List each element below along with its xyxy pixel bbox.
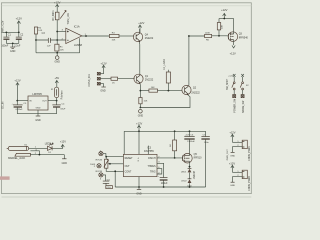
junction output xyxy=(85,35,87,37)
capacitor C2 xyxy=(14,32,24,47)
junction op-amp -in xyxy=(56,39,58,41)
svg-text:IC1A: IC1A xyxy=(74,25,80,29)
capacitor C8 xyxy=(157,163,168,187)
wire conn pin3 to gnd xyxy=(100,84,103,87)
transistor Q4 xyxy=(133,29,154,44)
svg-text:3: 3 xyxy=(100,178,102,180)
junction R2/C3 xyxy=(35,39,37,41)
junction Q1 emitter xyxy=(140,90,142,92)
switch S1 supply arrow xyxy=(228,74,235,82)
svg-text:IN: IN xyxy=(29,101,32,103)
wire conn pin2 to R1b xyxy=(100,78,111,80)
pot pad 3 xyxy=(99,173,103,181)
pot pad 2 xyxy=(94,164,101,168)
wire op-amp +in xyxy=(57,31,66,33)
wire R2 down xyxy=(35,34,37,53)
svg-text:1K: 1K xyxy=(170,144,172,147)
junction Q5 source xyxy=(189,166,191,168)
supply +12V (conn B) xyxy=(229,162,235,173)
svg-text:+5V: +5V xyxy=(54,76,59,80)
svg-text:LM358: LM358 xyxy=(74,43,82,47)
wire gnd bus regulator xyxy=(17,110,56,114)
wire Q2 emitter to gnd node xyxy=(140,95,190,108)
mosfet Q3 xyxy=(228,19,248,46)
svg-text:DISCH: DISCH xyxy=(148,157,156,160)
timer IC2 box xyxy=(123,147,160,177)
trimmer R3 xyxy=(55,11,66,20)
junction reg in xyxy=(16,100,18,102)
supply +12V (Q3 source, down) xyxy=(230,45,236,55)
svg-text:ICM7555: ICM7555 xyxy=(144,150,154,153)
capacitor C1 xyxy=(1,32,11,47)
wire conn A pin2 xyxy=(233,147,243,153)
wire rail left drop to IC2 xyxy=(123,131,125,154)
supply +12V (LED) xyxy=(60,139,66,148)
wire +12V rail (555) xyxy=(124,130,205,132)
switch S2 supply arrow xyxy=(241,74,249,87)
wire R6 to gate xyxy=(212,35,229,37)
resistor R1 (feedback) xyxy=(55,44,64,51)
svg-text:10K: 10K xyxy=(60,49,64,51)
junction C1 top xyxy=(6,32,8,34)
wire gate net Q3 xyxy=(189,35,205,37)
junction bus/diodes xyxy=(189,186,191,188)
resistor R10 (gate) xyxy=(170,131,177,158)
wire conn B pin1 xyxy=(232,171,242,173)
svg-text:0.33uF: 0.33uF xyxy=(16,109,23,111)
svg-text:1uF: 1uF xyxy=(47,45,51,47)
ground (conn B) xyxy=(230,182,235,187)
svg-text:10K: 10K xyxy=(151,87,155,89)
svg-text:BARREL_JACK: BARREL_JACK xyxy=(8,157,25,160)
junction rail/C6 xyxy=(189,130,191,132)
supply +12V (Q3) xyxy=(221,8,228,19)
junction bus/C8 xyxy=(163,186,165,188)
svg-text:100K: 100K xyxy=(205,32,211,34)
wire IC2 top pin stub xyxy=(147,146,149,155)
svg-text:IRF9540: IRF9540 xyxy=(239,36,249,39)
ground (transistor stage) xyxy=(138,109,144,117)
svg-text:R6: R6 xyxy=(206,39,210,41)
svg-text:+12V: +12V xyxy=(136,121,142,125)
svg-text:+12V: +12V xyxy=(60,139,66,143)
wire Q1 emitter xyxy=(139,84,141,91)
svg-text:IRF510: IRF510 xyxy=(194,157,203,160)
svg-text:OUT: OUT xyxy=(42,101,47,103)
svg-text:Polyfuse: Polyfuse xyxy=(62,90,64,100)
supply +12V (conn 3x1) xyxy=(101,61,107,73)
ground (input caps) xyxy=(10,43,16,53)
svg-text:C4: C4 xyxy=(62,104,66,106)
pot pad 1 xyxy=(99,151,103,156)
wire R1 bottom / feedback run xyxy=(36,51,80,52)
frame inner faint line bottom xyxy=(2,196,252,198)
svg-text:100uF: 100uF xyxy=(161,182,168,185)
resistor R7 xyxy=(149,87,158,92)
wire conn pin1 to +12V xyxy=(100,73,103,75)
svg-text:LED1: LED1 xyxy=(181,172,187,174)
svg-text:GND: GND xyxy=(138,115,144,118)
switch S1 xyxy=(232,82,236,98)
wire R7 to Q2 base xyxy=(158,90,183,92)
wire Q4 emitter to Q1 collector xyxy=(139,44,141,74)
wire conn B pin2 xyxy=(233,177,243,182)
svg-text:C2: C2 xyxy=(20,33,24,36)
connector CONN_3X1 pads xyxy=(97,72,100,85)
wire Q2 collector riser xyxy=(188,36,190,86)
voltage regulator IC4 LM7805 xyxy=(28,92,48,110)
supply +5V (regulator out) xyxy=(54,76,59,87)
ground (regulator) xyxy=(35,114,41,122)
junction caps gnd xyxy=(12,43,14,45)
junction reg out xyxy=(56,100,58,102)
resistor R2 (bias) xyxy=(34,27,42,34)
resistor R8 (Q1 emitter to gnd) xyxy=(139,91,148,108)
svg-text:LM7805: LM7805 xyxy=(32,92,42,96)
wire jack pin2 (sleeve) xyxy=(30,154,64,156)
junction bus/IC2 xyxy=(138,186,140,188)
svg-text:PWR_+12V: PWR_+12V xyxy=(2,20,5,33)
svg-text:GND: GND xyxy=(35,119,41,122)
svg-text:OUT: OUT xyxy=(125,165,131,168)
LED D1 xyxy=(45,143,54,154)
diode D2 xyxy=(181,167,191,179)
connector JP2 xyxy=(242,170,247,178)
svg-text:SW_SPDT: SW_SPDT xyxy=(227,78,229,90)
supply +12V (regulator in) xyxy=(14,79,20,101)
capacitor C3 xyxy=(36,32,66,47)
wire pot bottom to IC2/bus xyxy=(106,168,123,187)
svg-text:GND: GND xyxy=(230,155,235,157)
wire jack pin1 xyxy=(29,147,48,149)
wire R1b to Q1 base xyxy=(118,78,135,80)
wire to R7 xyxy=(140,90,149,92)
wire thres/trig loop xyxy=(157,169,162,174)
svg-text:Q3: Q3 xyxy=(239,33,243,36)
svg-text:1N4148: 1N4148 xyxy=(194,170,196,179)
svg-text:+12V: +12V xyxy=(229,162,235,166)
svg-text:+12V: +12V xyxy=(14,79,20,83)
svg-text:Q2: Q2 xyxy=(193,86,197,89)
supply +12V (conn A) xyxy=(229,130,235,142)
svg-text:+12V C6: +12V C6 xyxy=(185,134,194,136)
svg-text:GND: GND xyxy=(230,185,235,187)
svg-text:4: 4 xyxy=(138,158,140,160)
junction pot wiper xyxy=(109,163,111,165)
svg-text:POWER_SW: POWER_SW xyxy=(234,98,236,112)
junction gate corner xyxy=(188,35,190,37)
svg-text:TRIM_10K: TRIM_10K xyxy=(67,13,70,25)
resistor R9 (gate pullup) xyxy=(217,19,223,36)
junction pot top xyxy=(105,156,107,158)
wire feedback riser xyxy=(79,38,81,53)
svg-text:D1: D1 xyxy=(48,152,52,154)
frame inner faint line top xyxy=(2,5,252,7)
capacitor C7 xyxy=(201,131,209,187)
svg-text:GND: GND xyxy=(10,50,16,53)
wire IC4 OUT xyxy=(48,100,57,102)
wire wiper to IC2 xyxy=(110,163,123,165)
barrel jack G1 body xyxy=(7,145,31,161)
junction C2 top xyxy=(18,32,20,34)
svg-text:10K: 10K xyxy=(222,24,224,28)
wire conn A pin1 xyxy=(232,141,242,143)
svg-text:C3: C3 xyxy=(42,32,46,35)
svg-text:RVCM: RVCM xyxy=(96,160,103,162)
wire IC2 out to Q5 gate xyxy=(157,157,183,159)
svg-text:C5: C5 xyxy=(23,103,27,105)
wire op-amp output xyxy=(82,35,110,37)
ground (555) xyxy=(136,187,142,195)
wire cap bottoms join xyxy=(6,42,18,44)
svg-text:R1: R1 xyxy=(60,47,64,49)
svg-text:1500uF: 1500uF xyxy=(187,141,195,143)
junction rail xyxy=(223,18,225,20)
wire input rail xyxy=(3,31,19,33)
capacitor C10 xyxy=(103,179,113,189)
resistor R6 xyxy=(205,32,212,41)
svg-text:C1: C1 xyxy=(8,33,12,36)
svg-text:S2: S2 xyxy=(246,85,249,87)
svg-text:8: 8 xyxy=(138,161,140,163)
svg-text:CONN_PWR1: CONN_PWR1 xyxy=(249,145,251,160)
junction R5 bottom xyxy=(168,90,170,92)
switch S2 xyxy=(240,82,244,98)
capacitor C6 xyxy=(184,131,195,154)
diode D3 xyxy=(181,179,192,188)
junction gnd node xyxy=(140,107,142,109)
svg-text:GND: GND xyxy=(36,108,41,110)
wire R4 to Q4 base xyxy=(119,35,134,37)
resistor R5 xyxy=(166,70,170,91)
svg-text:+: + xyxy=(158,176,160,178)
svg-text:GND: GND xyxy=(100,90,106,93)
svg-text:33uF: 33uF xyxy=(60,109,66,111)
junction rail/R10 xyxy=(174,130,176,132)
ground (jack) xyxy=(62,155,68,165)
svg-text:2N2222: 2N2222 xyxy=(145,37,154,40)
supply +12V (input) xyxy=(16,16,23,32)
svg-text:MODE_SW: MODE_SW xyxy=(243,100,245,113)
svg-text:DC_IN: DC_IN xyxy=(2,101,4,108)
svg-text:+12V: +12V xyxy=(229,130,235,134)
wire IC2 gnd pin xyxy=(138,177,140,187)
svg-text:10n: 10n xyxy=(106,179,110,181)
svg-text:+12V: +12V xyxy=(230,51,236,55)
wire +12V rail Q3 xyxy=(219,18,234,20)
svg-text:+12V: +12V xyxy=(16,16,23,20)
svg-text:100n: 100n xyxy=(204,142,210,144)
junction gate wire xyxy=(174,157,176,159)
connector JP1 xyxy=(242,140,247,148)
junction rail/arrow xyxy=(138,130,140,132)
svg-text:2N2222: 2N2222 xyxy=(191,91,200,94)
svg-text:GND: GND xyxy=(136,192,142,195)
svg-text:+12V: +12V xyxy=(101,61,107,65)
svg-text:100uF: 100uF xyxy=(1,44,8,47)
ground (op-amp) xyxy=(55,53,61,64)
junction pot bottom riser xyxy=(114,170,116,172)
wire rail drop to IC2 vcc xyxy=(138,131,140,154)
capacitor C5 xyxy=(12,101,27,114)
transistor Q1 xyxy=(134,74,154,84)
svg-text:1K: 1K xyxy=(112,82,115,84)
svg-text:F1: F1 xyxy=(51,89,54,91)
junction sleeve xyxy=(39,154,41,156)
svg-text:2: 2 xyxy=(94,166,96,168)
svg-text:THRES: THRES xyxy=(147,165,156,168)
svg-text:CONN_3X1: CONN_3X1 xyxy=(88,73,91,86)
supply +12V (555 rail) xyxy=(136,121,142,131)
junction op-amp +in xyxy=(56,31,58,33)
resistor R4 xyxy=(109,33,119,42)
wire pot top xyxy=(105,157,107,160)
svg-text:PWR_OUT: PWR_OUT xyxy=(227,149,229,161)
op-amp IC1A xyxy=(66,25,83,47)
frame border xyxy=(2,3,252,194)
wire pad3 to C10 xyxy=(103,175,106,181)
svg-text:1K_LOAD: 1K_LOAD xyxy=(163,59,166,70)
svg-text:+12V: +12V xyxy=(54,0,61,4)
potentiometer R11 xyxy=(104,159,110,168)
resistor R1b (Q1 base) xyxy=(111,77,118,84)
svg-text:+12V: +12V xyxy=(221,8,228,12)
junction pullup/gate xyxy=(218,35,220,37)
svg-text:LED2: LED2 xyxy=(181,181,187,183)
svg-text:R3_4W01: R3_4W01 xyxy=(53,10,55,21)
supply +12V (Q4) xyxy=(138,21,144,32)
wire to IC4 IN xyxy=(17,100,28,102)
svg-text:RESET: RESET xyxy=(125,157,134,160)
ground (conn 3x1) xyxy=(100,87,106,93)
svg-text:+12V: +12V xyxy=(138,21,144,25)
svg-text:GND: GND xyxy=(55,60,61,63)
ground (conn A) xyxy=(230,152,235,157)
junction feedback gnd xyxy=(56,52,58,54)
polyfuse F1 xyxy=(51,87,59,100)
svg-text:GND: GND xyxy=(62,162,68,165)
wire trimmer to op-amp input column xyxy=(56,20,58,45)
supply +12V (trimmer) xyxy=(54,0,61,12)
svg-text:CONT: CONT xyxy=(125,171,132,174)
capacitor C4 xyxy=(52,101,66,114)
svg-text:CONN_PWR2: CONN_PWR2 xyxy=(249,175,251,190)
svg-text:TRIG: TRIG xyxy=(150,171,156,174)
mosfet Q5 xyxy=(183,153,203,166)
wire jack pin3 xyxy=(30,151,39,155)
wire pad1 to IC2 xyxy=(103,154,123,157)
svg-text:100K: 100K xyxy=(90,164,96,166)
svg-text:10K: 10K xyxy=(144,101,148,103)
selection artifact bar xyxy=(0,176,10,179)
wire gnd bus (555) xyxy=(115,186,205,188)
svg-text:2N2222: 2N2222 xyxy=(145,79,154,82)
wire LED to +12V xyxy=(52,147,63,148)
svg-text:10K: 10K xyxy=(112,40,116,42)
transistor Q2 xyxy=(182,85,201,95)
